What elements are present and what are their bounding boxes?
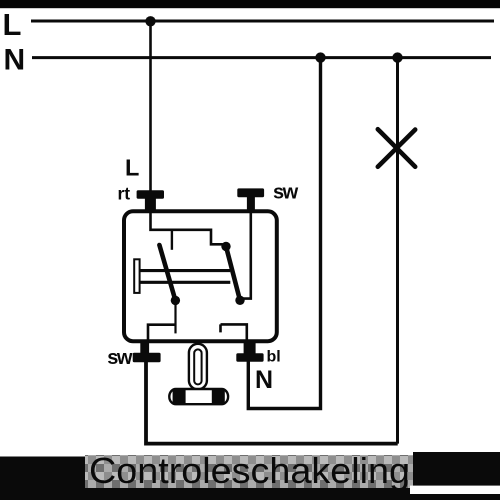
svg-text:L: L: [3, 7, 22, 42]
svg-text:bl: bl: [267, 349, 281, 366]
svg-text:Controleschakeling: Controleschakeling: [89, 450, 410, 491]
svg-text:sw: sw: [107, 347, 133, 369]
svg-text:N: N: [255, 366, 272, 394]
svg-text:rt: rt: [118, 184, 131, 204]
svg-text:N: N: [4, 44, 26, 77]
svg-text:sw: sw: [273, 182, 299, 204]
svg-text:L: L: [125, 155, 139, 181]
